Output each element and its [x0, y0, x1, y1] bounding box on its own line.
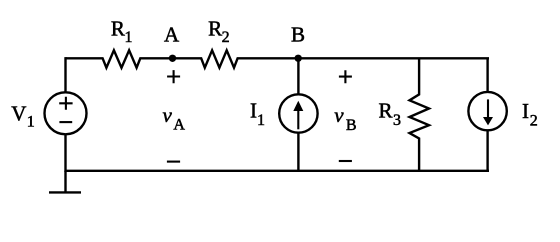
svg-text:R: R — [208, 17, 222, 41]
svg-text:1: 1 — [125, 29, 133, 46]
svg-text:2: 2 — [222, 29, 230, 46]
svg-text:1: 1 — [257, 112, 265, 129]
svg-text:1: 1 — [27, 113, 35, 130]
svg-text:I: I — [522, 99, 529, 123]
svg-text:3: 3 — [393, 112, 401, 129]
svg-text:A: A — [173, 117, 185, 134]
svg-text:R: R — [111, 17, 125, 41]
svg-text:B: B — [346, 117, 357, 134]
svg-text:A: A — [164, 23, 180, 47]
svg-text:B: B — [291, 23, 305, 47]
svg-text:R: R — [379, 99, 393, 123]
svg-text:v: v — [163, 103, 173, 127]
svg-text:2: 2 — [530, 113, 538, 130]
svg-text:V: V — [11, 101, 26, 125]
svg-text:v: v — [334, 103, 344, 127]
svg-text:I: I — [250, 98, 257, 122]
